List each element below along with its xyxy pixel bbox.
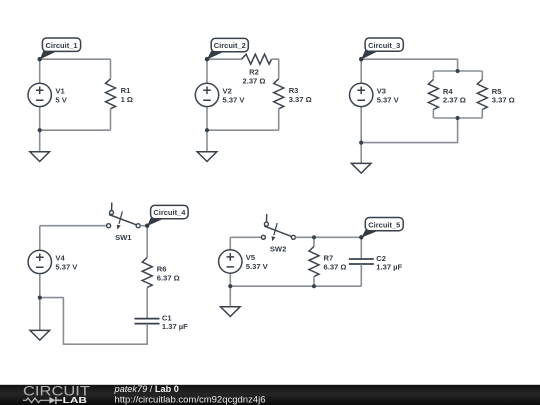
wire right-bottom C1 — [110, 109, 112, 130]
svg-text:http://circuitlab.com/cm92qcgd: http://circuitlab.com/cm92qcgdnz4j6 — [115, 394, 266, 405]
svg-text:1.37 µF: 1.37 µF — [162, 322, 188, 331]
svg-text:V4: V4 — [55, 253, 65, 262]
svg-text:5.37 V: 5.37 V — [223, 95, 246, 104]
wire top-right C2 — [272, 59, 279, 79]
svg-text:5.37 V: 5.37 V — [377, 95, 400, 104]
resistor R4 — [428, 71, 465, 118]
svg-text:C2: C2 — [376, 254, 386, 263]
svg-text:Circuit_2: Circuit_2 — [214, 41, 246, 50]
resistor R1 — [106, 79, 134, 109]
wire top C1 — [40, 58, 111, 60]
svg-text:6.37 Ω: 6.37 Ω — [157, 273, 180, 282]
voltage source V2 — [195, 59, 245, 130]
wire node to R6 — [146, 226, 148, 258]
capacitor C2 — [349, 237, 403, 286]
voltage source V1 — [28, 59, 68, 130]
voltage source V5 — [219, 237, 269, 286]
footer title text — [114, 384, 266, 405]
resistor R2 — [242, 54, 272, 85]
wire top-left C2 — [207, 58, 242, 60]
resistor R7 — [309, 237, 346, 286]
wire bottom C3 — [361, 118, 457, 143]
svg-text:R5: R5 — [492, 87, 502, 96]
switch SW1 — [107, 203, 141, 243]
svg-text:SW2: SW2 — [270, 245, 286, 254]
wire right-bottom C2 — [278, 109, 280, 130]
wire SW2 to node — [295, 236, 361, 238]
wire bottom C1 — [40, 129, 111, 131]
svg-text:Circuit_5: Circuit_5 — [368, 220, 400, 229]
svg-text:R3: R3 — [289, 86, 299, 95]
resistor R3 — [274, 79, 312, 109]
junction parallel top — [456, 69, 460, 73]
wire right-top C1 — [110, 59, 112, 79]
node Circuit_3 callout — [359, 38, 403, 61]
svg-text:1 Ω: 1 Ω — [121, 95, 133, 104]
svg-text:Circuit_1: Circuit_1 — [45, 41, 77, 50]
ground C2 — [197, 130, 217, 161]
svg-text:V5: V5 — [246, 253, 256, 262]
junction R7 bottom — [312, 284, 316, 288]
svg-text:5.37 V: 5.37 V — [246, 262, 269, 271]
junction C3 bottom — [359, 141, 363, 145]
svg-text:3.37 Ω: 3.37 Ω — [289, 95, 312, 104]
wire top-left C4 — [40, 225, 107, 227]
svg-text:V3: V3 — [377, 86, 386, 95]
svg-text:V1: V1 — [55, 86, 65, 95]
svg-text:C1: C1 — [162, 313, 172, 322]
footer bar — [0, 385, 540, 405]
resistor R5 — [477, 71, 514, 118]
node Circuit_1 callout — [38, 38, 81, 61]
svg-text:5.37 V: 5.37 V — [55, 262, 78, 271]
resistor R6 — [142, 258, 180, 288]
svg-text:R1: R1 — [121, 86, 131, 95]
node Circuit_4 callout — [145, 205, 188, 228]
svg-text:R2: R2 — [249, 68, 259, 77]
wire top C3 — [361, 59, 457, 71]
ground C4 — [30, 298, 50, 341]
switch SW2 — [261, 214, 295, 254]
node Circuit_2 callout — [205, 38, 248, 61]
CircuitLab logo — [23, 384, 90, 405]
svg-text:1.37 µF: 1.37 µF — [376, 263, 402, 272]
svg-text:SW1: SW1 — [115, 233, 132, 242]
junction parallel bottom — [456, 116, 460, 120]
svg-text:5 V: 5 V — [55, 95, 67, 104]
svg-text:R6: R6 — [157, 265, 167, 274]
voltage source V3 — [350, 59, 400, 142]
voltage source V4 — [28, 226, 78, 298]
svg-text:6.37 Ω: 6.37 Ω — [324, 263, 347, 272]
ground C5 — [221, 286, 241, 316]
svg-text:Circuit_4: Circuit_4 — [153, 208, 186, 217]
wire R6 to C1 — [146, 288, 148, 319]
junction C4 bottom — [38, 296, 42, 300]
ground C1 — [30, 130, 50, 161]
svg-text:LAB: LAB — [63, 396, 88, 405]
wire bottom C2 — [207, 129, 279, 131]
capacitor C1 — [135, 313, 189, 331]
wire top-left C5 — [230, 236, 261, 238]
wire bottom C5 — [230, 285, 361, 287]
ground C3 — [351, 143, 371, 174]
svg-text:2.37 Ω: 2.37 Ω — [243, 77, 266, 86]
junction C1 bottom — [38, 128, 42, 132]
svg-text:Circuit_3: Circuit_3 — [368, 41, 400, 50]
svg-text:2.37 Ω: 2.37 Ω — [443, 96, 466, 105]
junction R7 top — [312, 235, 316, 239]
wire parallel bottom bar C3 — [433, 117, 482, 119]
svg-text:3.37 Ω: 3.37 Ω — [492, 96, 515, 105]
junction C2 bottom — [205, 128, 209, 132]
wire C1 bottom loop — [40, 298, 147, 345]
svg-text:R4: R4 — [443, 87, 453, 96]
junction C5 bottom — [228, 284, 232, 288]
node Circuit_5 callout — [359, 218, 403, 240]
svg-text:R7: R7 — [324, 254, 334, 263]
wire SW1 to node — [140, 225, 147, 227]
wire parallel top bar C3 — [433, 70, 482, 72]
svg-text:patek79 / Lab 0: patek79 / Lab 0 — [114, 384, 179, 394]
svg-text:V2: V2 — [223, 86, 232, 95]
